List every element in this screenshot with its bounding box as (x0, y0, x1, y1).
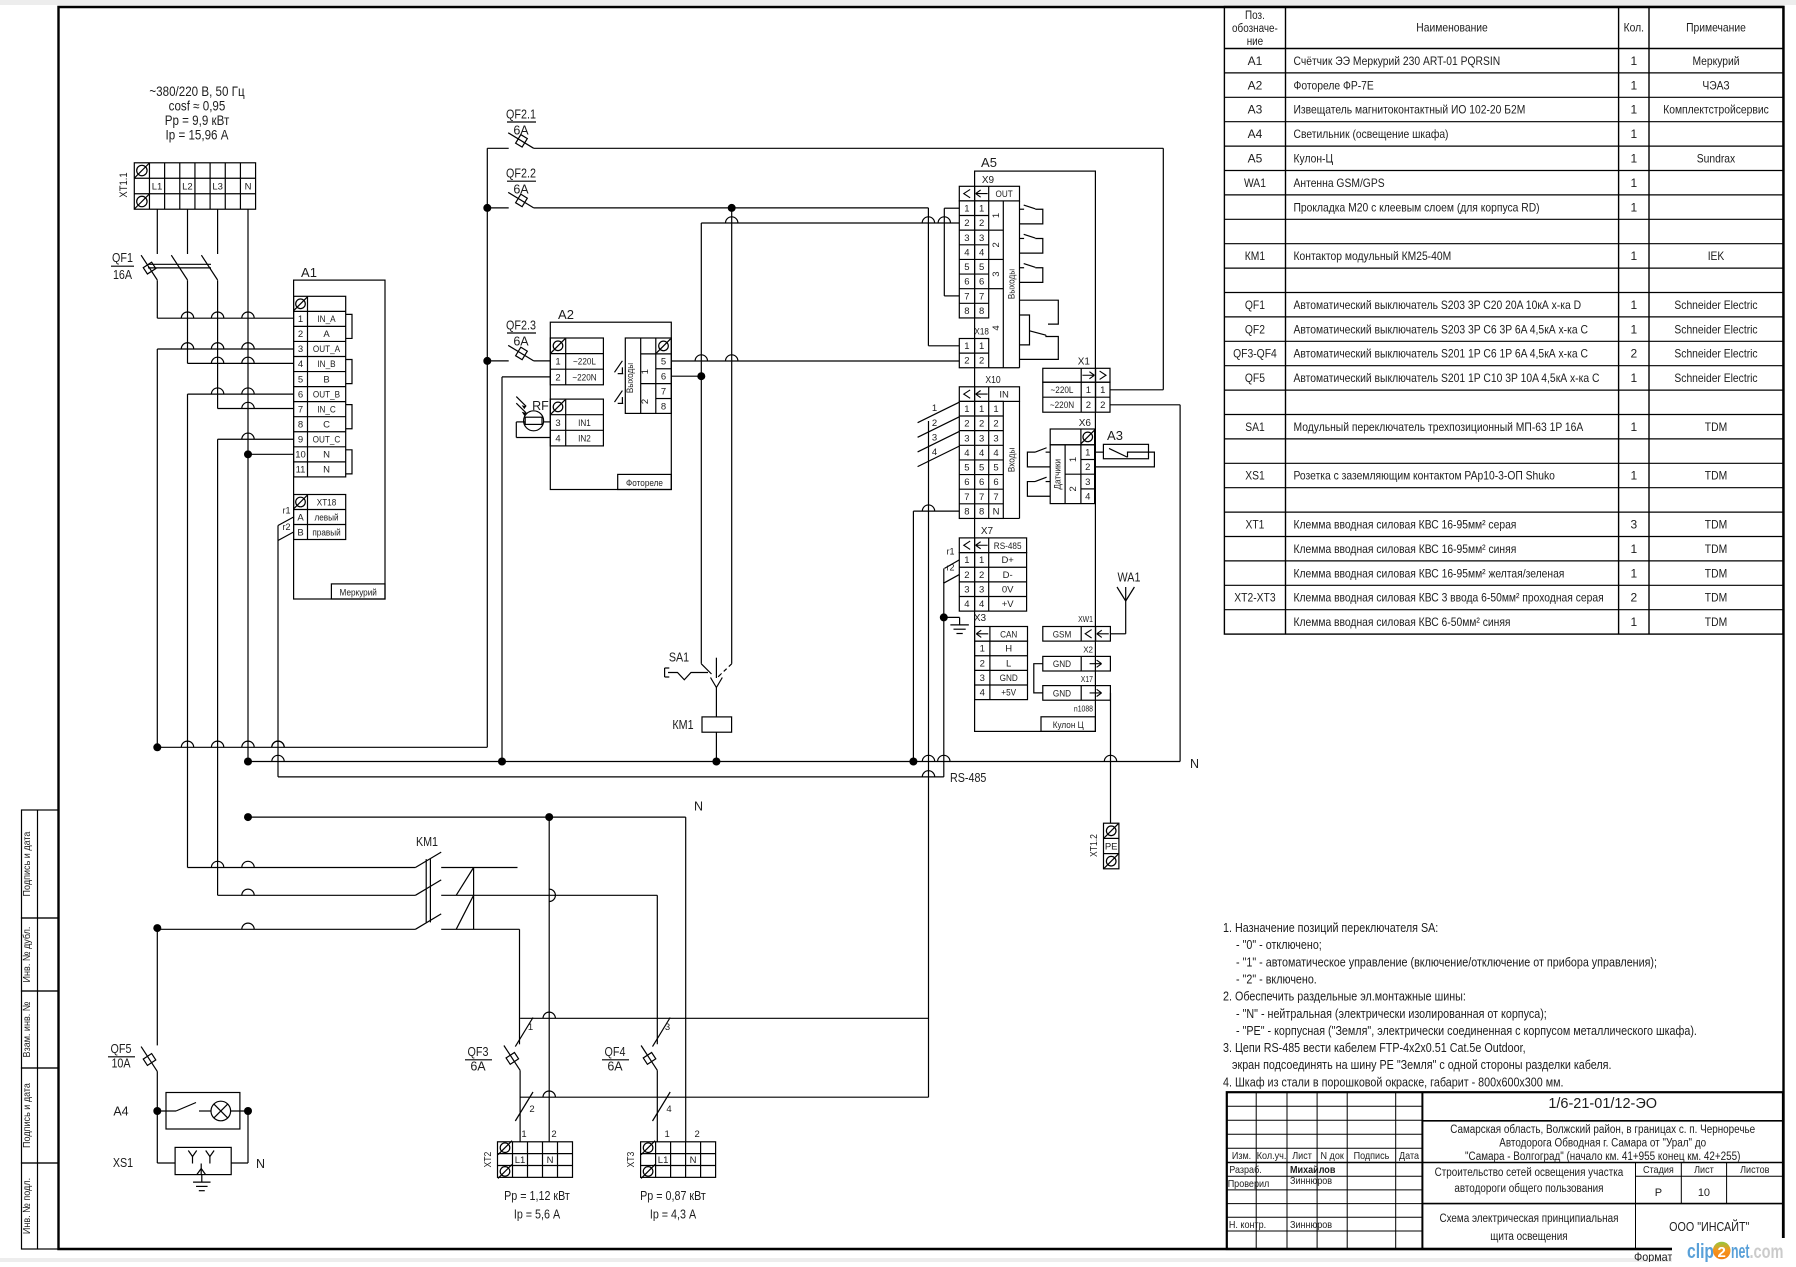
svg-text:~380/220 В, 50 Гц: ~380/220 В, 50 Гц (149, 84, 244, 99)
svg-text:Модульный переключатель трехпо: Модульный переключатель трехпозиционный … (1294, 420, 1584, 434)
svg-text:1: 1 (1630, 615, 1637, 629)
wire A1 pin6 OUT_B down-left (188, 393, 294, 395)
svg-text:4: 4 (991, 325, 1002, 330)
svg-text:Розетка с заземляющим контакто: Розетка с заземляющим контактом РАр10-3-… (1294, 469, 1556, 483)
electricity meter A1 box (294, 280, 385, 599)
svg-text:C: C (323, 419, 330, 430)
svg-text:1: 1 (1630, 469, 1637, 483)
svg-text:левый: левый (314, 513, 338, 524)
svg-text:8: 8 (964, 306, 969, 317)
svg-text:- "2" - включено.: - "2" - включено. (1236, 972, 1317, 986)
wire number slash 1 (515, 1018, 533, 1047)
svg-text:6: 6 (964, 477, 969, 488)
wire A2 pin6 junction (671, 375, 701, 377)
svg-text:1: 1 (991, 213, 1002, 218)
svg-text:2: 2 (1630, 591, 1637, 605)
svg-text:X7: X7 (981, 526, 994, 537)
svg-text:Листов: Листов (1740, 1164, 1770, 1176)
svg-text:A4: A4 (1248, 127, 1263, 141)
svg-text:9: 9 (298, 434, 303, 445)
KM1 pole1 blade (415, 852, 441, 867)
X9 group cells and Выходы column (1002, 201, 1004, 368)
svg-text:3: 3 (932, 432, 937, 443)
svg-text:TDM: TDM (1705, 591, 1727, 605)
wire number slash 2 (515, 1092, 533, 1121)
wire QF2.2 branch down to SA1 (731, 208, 733, 664)
wire A1 pin9 OUT_C down-left (218, 438, 294, 440)
svg-text:Кол.уч.: Кол.уч. (1257, 1150, 1287, 1162)
svg-text:2: 2 (964, 419, 969, 430)
browser chrome strip top (0, 0, 1796, 5)
wire phase B into KM1 pole1 (188, 867, 416, 869)
wire L2 from XT1.1 to QF1 (187, 209, 189, 254)
svg-text:3: 3 (991, 271, 1002, 276)
svg-text:2: 2 (964, 218, 969, 229)
svg-text:обозначе-: обозначе- (1232, 23, 1278, 35)
svg-text:3: 3 (1085, 477, 1090, 488)
svg-text:4: 4 (298, 359, 303, 370)
svg-text:1: 1 (555, 357, 560, 368)
svg-text:Строительство сетей освещения: Строительство сетей освещения участка (1435, 1167, 1624, 1179)
svg-text:A: A (297, 513, 304, 524)
svg-text:QF3-QF4: QF3-QF4 (1233, 347, 1277, 361)
svg-text:6: 6 (298, 389, 303, 400)
svg-text:OUT_B: OUT_B (313, 389, 340, 400)
svg-text:X6: X6 (1079, 418, 1092, 429)
svg-text:OUT_C: OUT_C (313, 434, 341, 445)
svg-text:правый: правый (312, 528, 340, 539)
svg-text:SA1: SA1 (1245, 420, 1265, 434)
svg-text:2: 2 (1068, 486, 1079, 491)
svg-text:1: 1 (964, 341, 969, 352)
wire QF1 pole1 to A1 pin1 (156, 280, 158, 318)
circuit breaker QF2.1 (487, 147, 508, 149)
svg-text:Выходы: Выходы (1006, 269, 1017, 299)
svg-text:- "0" - отключено;: - "0" - отключено; (1236, 938, 1322, 952)
circuit breaker QF5 (141, 1047, 157, 1072)
svg-text:3: 3 (979, 233, 984, 244)
svg-text:Лист: Лист (1292, 1150, 1312, 1162)
bus phase A feeder to QF2 riser (153, 743, 161, 751)
RS-485 pair from A1 XT18 (278, 517, 294, 526)
svg-text:1: 1 (979, 404, 984, 415)
bus RS-485 (278, 776, 944, 778)
svg-text:КМ1: КМ1 (672, 718, 693, 732)
svg-text:10: 10 (295, 450, 306, 461)
wire phase A into KM1 pole3 (153, 924, 161, 932)
svg-text:XT2-XT3: XT2-XT3 (1234, 591, 1276, 605)
svg-text:1: 1 (1630, 152, 1637, 166)
svg-text:Контактор модульный КМ25-40М: Контактор модульный КМ25-40М (1294, 249, 1452, 263)
KM1 pole2 blade (415, 880, 441, 895)
svg-text:Автодорога Обводная г. Самара: Автодорога Обводная г. Самара от "Урал" … (1499, 1138, 1706, 1150)
wire A1 pin3 OUT_A down-left (157, 348, 293, 350)
svg-text:2: 2 (640, 399, 651, 404)
svg-text:6A: 6A (513, 183, 529, 197)
svg-text:XT18: XT18 (317, 498, 337, 509)
components list table (1224, 7, 1783, 635)
svg-text:N: N (245, 182, 252, 193)
svg-text:2: 2 (1100, 400, 1105, 411)
svg-text:2: 2 (979, 218, 984, 229)
wire phase A down to QF5 (156, 928, 158, 1045)
svg-text:Взам. инв. №: Взам. инв. № (21, 1002, 33, 1058)
svg-text:1: 1 (964, 204, 969, 215)
svg-text:Кулон Ц: Кулон Ц (1053, 720, 1084, 731)
svg-text:Выходы: Выходы (625, 363, 636, 393)
svg-text:Зиннюров: Зиннюров (1290, 1219, 1332, 1231)
svg-text:X2: X2 (1083, 646, 1093, 655)
svg-text:5: 5 (298, 374, 303, 385)
svg-text:Pp = 9,9 кВт: Pp = 9,9 кВт (165, 113, 230, 128)
svg-text:2: 2 (979, 570, 984, 581)
svg-text:3: 3 (979, 584, 984, 595)
svg-text:1: 1 (1630, 542, 1637, 556)
svg-text:QF2.3: QF2.3 (506, 319, 536, 333)
svg-text:2: 2 (1718, 1244, 1726, 1261)
svg-text:L1: L1 (152, 182, 163, 193)
wire X10 pin8 N to bus (913, 510, 959, 512)
svg-text:N: N (547, 1155, 554, 1166)
svg-text:Кол.: Кол. (1624, 21, 1644, 35)
svg-text:Извещатель магнитоконтактный И: Извещатель магнитоконтактный ИО 102-20 Б… (1294, 103, 1526, 117)
svg-text:Входы: Входы (1006, 448, 1017, 473)
title block (1227, 1092, 1783, 1249)
svg-text:B: B (297, 528, 303, 539)
svg-text:X10: X10 (985, 375, 1001, 386)
svg-text:2: 2 (555, 372, 560, 383)
svg-text:10A: 10A (111, 1057, 131, 1071)
svg-text:1: 1 (1086, 385, 1091, 396)
svg-text:8: 8 (979, 306, 984, 317)
wire KM1 to QF3 (519, 929, 521, 1044)
svg-text:Зиннюров: Зиннюров (1290, 1175, 1332, 1187)
svg-text:Кулон-Ц: Кулон-Ц (1294, 152, 1334, 166)
svg-text:Schneider Electric: Schneider Electric (1674, 371, 1757, 385)
svg-text:5: 5 (964, 463, 969, 474)
svg-text:~220N: ~220N (572, 372, 596, 383)
svg-text:Датчики: Датчики (1053, 459, 1064, 490)
svg-text:2: 2 (980, 658, 985, 669)
KM1 pole3 blade (415, 914, 441, 929)
svg-text:A2: A2 (1248, 78, 1263, 92)
svg-text:clip: clip (1687, 1241, 1714, 1262)
svg-text:Iр = 5,6 А: Iр = 5,6 А (514, 1208, 561, 1222)
svg-text:KM1: KM1 (416, 835, 438, 849)
A2 output terminals table (625, 338, 671, 413)
svg-text:QF4: QF4 (605, 1045, 626, 1059)
svg-text:Дата: Дата (1399, 1150, 1419, 1162)
svg-text:Изм.: Изм. (1232, 1150, 1251, 1162)
svg-text:7: 7 (979, 492, 984, 503)
svg-text:2: 2 (1086, 400, 1091, 411)
svg-text:6A: 6A (470, 1060, 486, 1074)
svg-text:Инв. № дубл.: Инв. № дубл. (21, 927, 33, 983)
circuit breaker QF3 (504, 1046, 520, 1071)
svg-text:5: 5 (964, 262, 969, 273)
label Кулон Ц in A5 (1041, 717, 1095, 732)
svg-text:net: net (1731, 1241, 1750, 1262)
svg-text:N: N (993, 506, 1000, 517)
svg-text:3: 3 (964, 584, 969, 595)
svg-text:Подпись и дата: Подпись и дата (21, 831, 33, 896)
svg-text:Подпись: Подпись (1354, 1150, 1390, 1162)
svg-text:L1: L1 (515, 1155, 526, 1166)
svg-text:N: N (694, 800, 703, 814)
svg-text:Схема электрическая принципиал: Схема электрическая принципиальная (1439, 1213, 1618, 1225)
svg-text:7: 7 (993, 492, 998, 503)
svg-text:Schneider Electric: Schneider Electric (1674, 347, 1757, 361)
X9 output relay contact 4 (1020, 300, 1059, 324)
junction QF2.3 (483, 357, 491, 365)
stamp column boxes left margin (22, 810, 59, 918)
svg-text:1/6-21-01/12-ЭО: 1/6-21-01/12-ЭО (1548, 1096, 1657, 1112)
wire number slash 3 (653, 1018, 671, 1047)
svg-text:2: 2 (964, 570, 969, 581)
svg-text:SA1: SA1 (669, 651, 689, 665)
wire N drop to XT3 (685, 817, 687, 1142)
contactor coil KM1 (702, 717, 732, 732)
svg-text:WA1: WA1 (1118, 571, 1141, 585)
svg-text:Счётчик ЭЭ Меркурий 230 ART-01: Счётчик ЭЭ Меркурий 230 ART-01 PQRSIN (1294, 54, 1501, 68)
svg-text:TDM: TDM (1705, 469, 1727, 483)
svg-text:N: N (323, 450, 330, 461)
svg-text:1: 1 (1630, 103, 1637, 117)
svg-text:IN: IN (999, 390, 1009, 401)
svg-text:1: 1 (521, 1129, 526, 1140)
svg-text:2: 2 (694, 1129, 699, 1140)
browser chrome strip bottom (0, 1258, 1796, 1262)
wire L3 from XT1.1 to QF1 (217, 209, 219, 254)
svg-text:1: 1 (1630, 420, 1637, 434)
svg-text:4: 4 (979, 247, 984, 258)
svg-text:TDM: TDM (1705, 542, 1727, 556)
svg-text:4: 4 (964, 448, 969, 459)
wire L1 from XT1.1 to QF1 (156, 209, 158, 254)
svg-text:~220N: ~220N (1050, 400, 1074, 411)
svg-text:Клемма вводная силовая КВС 3 в: Клемма вводная силовая КВС 3 ввода 6-50м… (1294, 591, 1604, 605)
wire number slash 4 (653, 1092, 671, 1121)
svg-text:экран подсоединять на шину PE: экран подсоединять на шину PE "Земля" с … (1232, 1058, 1612, 1072)
junction QF2.2 (483, 204, 491, 212)
svg-text:Меркурий: Меркурий (340, 587, 377, 598)
svg-text:4: 4 (964, 599, 969, 610)
A1 XT18 sub-table (294, 495, 346, 540)
svg-text:QF1: QF1 (112, 251, 133, 265)
svg-text:2: 2 (529, 1104, 534, 1115)
svg-text:N: N (323, 465, 330, 476)
svg-text:16A: 16A (113, 268, 133, 282)
wire A1 pin10 N junction (248, 453, 294, 455)
svg-text:XT3: XT3 (626, 1151, 637, 1167)
svg-text:4: 4 (993, 448, 998, 459)
svg-text:n1088: n1088 (1074, 705, 1094, 714)
svg-text:Антенна GSM/GPS: Антенна GSM/GPS (1294, 176, 1385, 190)
A2 output contact symbols (615, 361, 623, 373)
wire QF1 pole3 to A1 pin7 (217, 280, 219, 408)
svg-text:3: 3 (665, 1022, 670, 1033)
svg-text:1: 1 (964, 404, 969, 415)
svg-text:XT1.2: XT1.2 (1089, 834, 1100, 857)
svg-text:D+: D+ (1001, 555, 1014, 566)
svg-text:1: 1 (664, 1129, 669, 1140)
svg-text:1: 1 (1630, 371, 1637, 385)
KM1 linkage double bar (425, 859, 427, 922)
svg-text:GND: GND (1053, 688, 1071, 699)
svg-text:3: 3 (555, 418, 560, 429)
svg-text:5: 5 (661, 357, 666, 368)
svg-text:4: 4 (979, 448, 984, 459)
svg-text:IN_A: IN_A (317, 314, 336, 325)
svg-text:Sundrax: Sundrax (1697, 152, 1735, 166)
feeder line bottom wires 2 and 4 (520, 1096, 928, 1098)
svg-text:OUT_A: OUT_A (313, 344, 341, 355)
svg-text:Iр = 4,3 А: Iр = 4,3 А (650, 1208, 697, 1222)
A1 terminal table (294, 296, 346, 477)
circuit breaker QF4 (641, 1046, 657, 1071)
svg-text:- "N" - нейтральная (электриче: - "N" - нейтральная (электрически изолир… (1236, 1007, 1547, 1021)
svg-text:1: 1 (1630, 54, 1637, 68)
svg-text:r2: r2 (282, 522, 290, 532)
svg-text:L: L (1006, 658, 1011, 669)
svg-text:4: 4 (964, 247, 969, 258)
svg-text:TDM: TDM (1705, 518, 1727, 532)
svg-text:Меркурий: Меркурий (1692, 54, 1739, 68)
svg-text:TDM: TDM (1705, 566, 1727, 580)
svg-text:3: 3 (964, 433, 969, 444)
svg-text:1: 1 (1068, 457, 1079, 462)
svg-text:3: 3 (1630, 518, 1637, 532)
svg-text:автодороги общего пользования: автодороги общего пользования (1454, 1183, 1603, 1195)
svg-text:QF2.1: QF2.1 (506, 107, 536, 121)
svg-text:- "PE" - корпусная ("Земля", э: - "PE" - корпусная ("Земля", электрическ… (1236, 1024, 1697, 1038)
wire jumper X9 pin1 to pin7 (943, 208, 945, 296)
svg-text:Стадия: Стадия (1643, 1164, 1674, 1176)
svg-text:2: 2 (298, 329, 303, 340)
bus N lower (248, 816, 686, 818)
svg-text:Pp = 0,87 кВт: Pp = 0,87 кВт (640, 1189, 706, 1203)
door sensors at X6 (1027, 452, 1050, 467)
svg-text:1: 1 (979, 555, 984, 566)
svg-text:IEK: IEK (1708, 249, 1725, 263)
svg-text:8: 8 (979, 506, 984, 517)
svg-text:Pp = 1,12 кВт: Pp = 1,12 кВт (504, 1189, 570, 1203)
svg-text:4: 4 (555, 433, 560, 444)
wire to X9 pin2 (701, 222, 959, 224)
svg-text:Клемма вводная силовая КВС 16-: Клемма вводная силовая КВС 16-95мм² синя… (1294, 542, 1517, 556)
svg-text:2: 2 (979, 356, 984, 367)
svg-text:RS-485: RS-485 (950, 771, 986, 785)
svg-text:2: 2 (993, 419, 998, 430)
svg-text:XT1: XT1 (1246, 518, 1265, 532)
A1 terminal pair brackets (346, 314, 352, 338)
svg-text:TDM: TDM (1705, 615, 1727, 629)
svg-text:QF5: QF5 (111, 1042, 132, 1056)
svg-text:2: 2 (1085, 462, 1090, 473)
svg-text:OUT: OUT (996, 189, 1013, 200)
svg-text:Самарская область, Волжский ра: Самарская область, Волжский район, в гра… (1450, 1124, 1755, 1136)
svg-text:CAN: CAN (1000, 629, 1017, 640)
sensor cable line down to QF3 QF4 feeders (928, 421, 930, 1097)
svg-text:A4: A4 (113, 1105, 128, 1119)
svg-text:1: 1 (993, 404, 998, 415)
svg-text:Автоматический выключатель S20: Автоматический выключатель S201 1P C10 3… (1294, 371, 1600, 385)
wire QF1 pole2 to A1 pin4 (187, 280, 189, 363)
svg-text:3: 3 (964, 233, 969, 244)
svg-text:1: 1 (1085, 447, 1090, 458)
svg-text:7: 7 (979, 291, 984, 302)
photoresistor RF (524, 411, 544, 431)
junction at A4 (153, 1107, 161, 1115)
svg-text:XS1: XS1 (113, 1156, 133, 1170)
svg-text:X9: X9 (982, 175, 995, 186)
svg-text:7: 7 (661, 386, 666, 397)
svg-text:2: 2 (932, 418, 937, 429)
svg-text:B: B (323, 374, 329, 385)
svg-text:3. Цепи RS-485 вести кабелем F: 3. Цепи RS-485 вести кабелем FTP-4x2x0.5… (1223, 1041, 1526, 1055)
three-position switch SA1 (701, 664, 711, 674)
jumper between X2 and X17 GND (1034, 664, 1043, 693)
svg-text:ЧЭАЗ: ЧЭАЗ (1702, 78, 1729, 92)
svg-text:XT1.1: XT1.1 (118, 172, 130, 197)
svg-text:7: 7 (298, 404, 303, 415)
wire riser feeding QF2 group (486, 148, 488, 747)
svg-text:6A: 6A (607, 1060, 623, 1074)
svg-text:N док: N док (1321, 1150, 1345, 1162)
svg-text:6A: 6A (513, 334, 529, 348)
svg-text:6: 6 (964, 277, 969, 288)
svg-text:QF2.2: QF2.2 (506, 167, 536, 181)
svg-text:GND: GND (1053, 659, 1071, 670)
svg-text:3: 3 (993, 433, 998, 444)
svg-text:6A: 6A (513, 124, 529, 138)
svg-text:A3: A3 (1248, 103, 1263, 117)
svg-text:3: 3 (979, 433, 984, 444)
wire A2 pin2 to N bus (502, 376, 550, 378)
X9 output relay contacts 1-3 (1020, 208, 1025, 210)
svg-text:7: 7 (964, 291, 969, 302)
wire X17 GND to XT1.2 PE (1110, 693, 1112, 823)
svg-text:Iр = 15,96 А: Iр = 15,96 А (166, 128, 229, 143)
svg-text:1: 1 (1630, 322, 1637, 336)
svg-text:Автоматический выключатель S20: Автоматический выключатель S203 3P C6 3P… (1294, 322, 1589, 336)
svg-text:cosf ≈ 0,95: cosf ≈ 0,95 (169, 99, 226, 114)
svg-text:Фотореле ФР-7Е: Фотореле ФР-7Е (1294, 78, 1374, 92)
svg-text:2: 2 (1630, 347, 1637, 361)
svg-text:XW1: XW1 (1078, 615, 1093, 624)
RS-485 shield ground (940, 613, 948, 621)
KM1 output paralleling jumpers (456, 868, 473, 896)
svg-text:Подпись и дата: Подпись и дата (21, 1083, 33, 1148)
feeder line top wires 1 and 3 (520, 1017, 928, 1019)
svg-text:PE: PE (1105, 841, 1118, 852)
svg-text:A2: A2 (558, 307, 574, 322)
svg-text:- "1" - автоматическое управле: - "1" - автоматическое управление (включ… (1236, 955, 1657, 969)
svg-text:.com: .com (1750, 1242, 1784, 1262)
svg-text:1: 1 (1630, 298, 1637, 312)
wire QF2.2 drop to X18 pin1 (927, 208, 929, 346)
bus N distribution (244, 758, 252, 766)
svg-text:2: 2 (991, 242, 1002, 247)
svg-text:Schneider Electric: Schneider Electric (1674, 322, 1757, 336)
svg-text:Клемма вводная силовая КВС 16-: Клемма вводная силовая КВС 16-95мм² сера… (1294, 518, 1517, 532)
svg-text:A5: A5 (1248, 152, 1263, 166)
svg-text:A5: A5 (981, 155, 997, 170)
svg-text:Примечание: Примечание (1686, 21, 1746, 35)
svg-text:~220L: ~220L (1051, 385, 1074, 396)
svg-text:1: 1 (528, 1022, 533, 1033)
svg-text:щита освещения: щита освещения (1490, 1231, 1567, 1243)
